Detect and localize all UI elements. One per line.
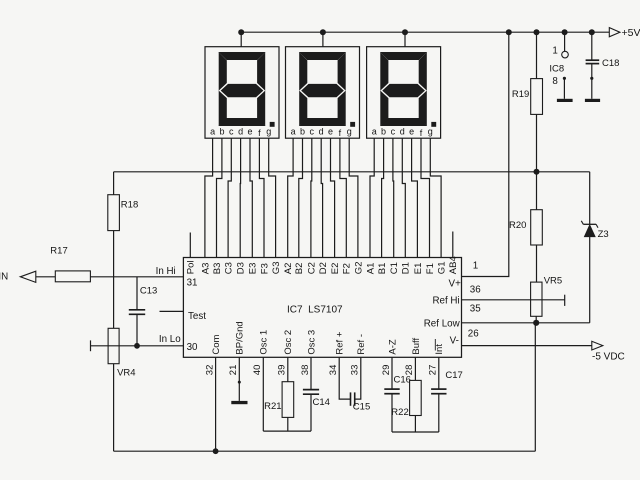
wire +5V top bus bbox=[241, 31, 609, 33]
wire VR4 wiper / In Lo to pin 30 bbox=[91, 345, 184, 347]
svg-text:VR4: VR4 bbox=[117, 368, 135, 379]
wire segment d2 to pin D2 bbox=[321, 138, 322, 257]
7-segment display DIS1 bbox=[205, 47, 279, 139]
wire segment g3 to pin G3 bbox=[269, 138, 276, 257]
wire Osc1 pin 40 bbox=[262, 357, 264, 431]
capacitor C17 bbox=[431, 357, 463, 432]
wire display anode to +5V bus bbox=[238, 29, 244, 47]
svg-text:Ref +: Ref + bbox=[335, 331, 346, 354]
svg-text:Ref Hi: Ref Hi bbox=[432, 296, 459, 307]
IC IC8 reference (pins 1 and 8) bbox=[549, 29, 568, 87]
svg-text:Pol: Pol bbox=[186, 260, 197, 274]
svg-text:g: g bbox=[266, 126, 271, 136]
svg-text:31: 31 bbox=[187, 278, 198, 289]
svg-text:D2: D2 bbox=[318, 262, 329, 274]
wire segment d3 to pin D3 bbox=[239, 138, 241, 257]
svg-text:B1: B1 bbox=[377, 263, 388, 275]
7-segment display DIS2 bbox=[286, 47, 360, 139]
svg-text:Osc 3: Osc 3 bbox=[306, 330, 317, 355]
wire segment g1 to pin G1 bbox=[430, 138, 441, 257]
wire segment a1 to pin A1 bbox=[370, 138, 374, 257]
svg-text:VR5: VR5 bbox=[544, 276, 562, 287]
svg-text:G1: G1 bbox=[437, 262, 448, 275]
resistor R19 bbox=[512, 29, 543, 172]
wire display anode to +5V bus bbox=[402, 29, 408, 47]
svg-text:A-Z: A-Z bbox=[387, 339, 398, 355]
svg-text:e: e bbox=[409, 126, 414, 136]
wire buffer network bottom bbox=[392, 431, 439, 433]
svg-text:A1: A1 bbox=[365, 263, 376, 275]
svg-text:c: c bbox=[310, 126, 315, 136]
wire segment a2 to pin A2 bbox=[288, 138, 293, 257]
svg-text:Com: Com bbox=[211, 334, 222, 354]
svg-text:E2: E2 bbox=[330, 263, 341, 275]
svg-text:F2: F2 bbox=[342, 263, 353, 274]
svg-text:E3: E3 bbox=[248, 263, 259, 275]
wire V- pin 26 to -5VDC bbox=[462, 345, 592, 347]
svg-text:A2: A2 bbox=[283, 263, 294, 275]
wire segment c2 to pin C2 bbox=[310, 138, 313, 257]
svg-text:IC7 LS7107: IC7 LS7107 bbox=[287, 305, 343, 316]
IC7 bottom pin labels bbox=[204, 321, 445, 375]
wire Ref Low pin 35 bbox=[462, 320, 590, 326]
svg-text:-5 VDC: -5 VDC bbox=[592, 352, 625, 363]
wire segment f1 to pin F1 bbox=[421, 138, 430, 257]
resistor R17 bbox=[50, 246, 90, 282]
svg-text:R18: R18 bbox=[121, 200, 138, 211]
svg-text:1: 1 bbox=[473, 260, 478, 271]
svg-text:V-: V- bbox=[450, 335, 459, 346]
svg-text:40: 40 bbox=[252, 365, 263, 376]
IC IC7 LS7107 A/D converter bbox=[183, 258, 461, 358]
svg-text:R17: R17 bbox=[50, 246, 67, 257]
svg-text:B3: B3 bbox=[212, 263, 223, 275]
svg-text:C17: C17 bbox=[445, 370, 462, 381]
wire Ref Hi pin 36 to VR5 wiper bbox=[462, 295, 565, 306]
svg-text:c: c bbox=[391, 126, 396, 136]
svg-text:Buff: Buff bbox=[411, 338, 422, 355]
power -5 VDC terminal bbox=[592, 341, 625, 362]
svg-text:a: a bbox=[372, 126, 377, 136]
resistor R22 bbox=[391, 357, 421, 432]
power +5V terminal bbox=[609, 27, 640, 39]
svg-text:Z3: Z3 bbox=[598, 229, 609, 240]
resistor R20 bbox=[509, 172, 542, 282]
svg-text:34: 34 bbox=[328, 365, 339, 376]
resistor R18 bbox=[108, 172, 138, 277]
svg-text:IC8: IC8 bbox=[549, 63, 564, 74]
wire segment a3 to pin A3 bbox=[205, 138, 213, 257]
capacitor C14 bbox=[303, 357, 330, 431]
svg-text:35: 35 bbox=[470, 303, 481, 314]
IC7 top pin labels bbox=[186, 256, 460, 274]
svg-text:30: 30 bbox=[187, 342, 198, 353]
wire reference mid rail bbox=[114, 169, 590, 175]
capacitor C13 bbox=[129, 277, 158, 346]
svg-text:Osc 2: Osc 2 bbox=[283, 330, 294, 355]
wire segment g2 to pin G2 bbox=[349, 138, 358, 257]
wire display anode to +5V bus bbox=[320, 29, 326, 47]
svg-text:R21: R21 bbox=[264, 401, 281, 412]
node IN input terminal bbox=[0, 271, 36, 282]
wire Pol pin stub bbox=[189, 233, 191, 258]
svg-text:29: 29 bbox=[381, 365, 392, 376]
svg-text:G3: G3 bbox=[271, 262, 282, 275]
IC7 right pin names and numbers bbox=[424, 260, 482, 346]
wire oscillator network bottom bbox=[263, 430, 311, 432]
svg-text:C18: C18 bbox=[602, 58, 619, 69]
wire segment c1 to pin C1 bbox=[392, 138, 395, 257]
wire Com pin 32 to rail bbox=[215, 357, 217, 451]
svg-text:In Lo: In Lo bbox=[159, 334, 181, 345]
svg-text:C14: C14 bbox=[313, 397, 330, 408]
wire segment f3 to pin F3 bbox=[259, 138, 264, 257]
svg-text:21: 21 bbox=[228, 365, 239, 376]
7-segment display DIS3 bbox=[367, 47, 441, 139]
svg-text:b: b bbox=[219, 126, 224, 136]
svg-text:39: 39 bbox=[277, 365, 288, 376]
IC7 left pin names and numbers bbox=[156, 266, 207, 353]
svg-text:Ref Low: Ref Low bbox=[424, 319, 461, 330]
ground BP/Gnd pin 21 bbox=[231, 357, 247, 404]
potentiometer VR4 bbox=[91, 277, 136, 451]
svg-text:V+: V+ bbox=[449, 278, 462, 289]
svg-text:c: c bbox=[229, 126, 234, 136]
svg-text:F1: F1 bbox=[425, 263, 436, 274]
svg-text:F3: F3 bbox=[259, 263, 270, 274]
node common rail junction bbox=[213, 448, 219, 454]
svg-text:D3: D3 bbox=[236, 262, 247, 274]
wire V+ pin 1 to +5V bus bbox=[462, 29, 512, 276]
svg-text:BP/Gnd: BP/Gnd bbox=[235, 321, 246, 354]
svg-text:8: 8 bbox=[552, 76, 558, 87]
svg-text:1: 1 bbox=[552, 45, 557, 56]
ground C18 bbox=[585, 77, 600, 102]
svg-text:C13: C13 bbox=[140, 285, 157, 296]
svg-text:32: 32 bbox=[204, 365, 215, 376]
wire segment b1 to pin B1 bbox=[382, 138, 384, 257]
svg-text:Osc 1: Osc 1 bbox=[259, 330, 270, 355]
capacitor C16 bbox=[384, 357, 411, 432]
svg-text:C1: C1 bbox=[389, 262, 400, 274]
resistor R21 bbox=[264, 357, 294, 431]
svg-text:G2: G2 bbox=[353, 262, 364, 275]
wire R17 to In Hi pin 31 bbox=[90, 276, 183, 278]
svg-text:R22: R22 bbox=[391, 407, 408, 418]
svg-text:g: g bbox=[428, 126, 433, 136]
wire segment e3 to pin E3 bbox=[250, 138, 252, 257]
svg-text:Test: Test bbox=[188, 311, 206, 322]
svg-text:36: 36 bbox=[470, 285, 481, 296]
svg-text:b: b bbox=[381, 126, 386, 136]
wire segment c3 to pin C3 bbox=[228, 138, 231, 257]
svg-text:d: d bbox=[238, 126, 243, 136]
svg-text:d: d bbox=[400, 126, 405, 136]
svg-text:C2: C2 bbox=[306, 262, 317, 274]
wire segment e1 to pin E1 bbox=[412, 138, 418, 257]
svg-text:IN: IN bbox=[0, 272, 8, 283]
svg-text:26: 26 bbox=[468, 329, 479, 340]
wire segment d1 to pin D1 bbox=[402, 138, 405, 257]
wire rail up to Ref Low bbox=[534, 323, 536, 451]
svg-text:e: e bbox=[328, 126, 333, 136]
node In Lo junction bbox=[134, 343, 140, 349]
svg-text:C16: C16 bbox=[394, 375, 411, 386]
svg-text:D1: D1 bbox=[401, 262, 412, 274]
wire segment f2 to pin F2 bbox=[340, 138, 346, 257]
capacitor C18 bbox=[586, 29, 620, 78]
svg-text:33: 33 bbox=[350, 365, 361, 376]
svg-text:C3: C3 bbox=[224, 262, 235, 274]
svg-text:e: e bbox=[247, 126, 252, 136]
svg-text:+5V: +5V bbox=[622, 27, 640, 39]
svg-text:In Hi: In Hi bbox=[156, 266, 176, 277]
wire segment e2 to pin E2 bbox=[331, 138, 335, 257]
ground IC8 pin 8 bbox=[557, 77, 573, 102]
wire AB4 pin stub bbox=[452, 232, 454, 258]
svg-text:Ref -: Ref - bbox=[356, 334, 367, 355]
svg-text:C15: C15 bbox=[353, 402, 370, 413]
wire Test pin stub bbox=[160, 310, 184, 312]
zener diode Z3 bbox=[581, 172, 608, 323]
svg-text:B2: B2 bbox=[294, 263, 305, 275]
svg-text:AB4: AB4 bbox=[448, 256, 459, 274]
svg-text:a: a bbox=[210, 126, 215, 136]
wire bottom common rail bbox=[114, 450, 536, 452]
wire input to R17 bbox=[36, 276, 56, 278]
svg-text:27: 27 bbox=[428, 365, 439, 376]
svg-text:Int: Int bbox=[434, 344, 445, 355]
svg-text:R20: R20 bbox=[509, 220, 526, 231]
svg-text:d: d bbox=[319, 126, 324, 136]
svg-text:a: a bbox=[291, 126, 296, 136]
svg-text:A3: A3 bbox=[200, 263, 211, 275]
svg-text:b: b bbox=[300, 126, 305, 136]
svg-text:E1: E1 bbox=[413, 263, 424, 275]
capacitor C15 bbox=[339, 357, 370, 412]
wire segment b2 to pin B2 bbox=[299, 138, 303, 257]
svg-text:g: g bbox=[347, 126, 352, 136]
wire segment b3 to pin B3 bbox=[217, 138, 222, 257]
svg-text:38: 38 bbox=[300, 365, 311, 376]
potentiometer VR5 bbox=[531, 276, 563, 323]
svg-text:R19: R19 bbox=[512, 89, 529, 100]
